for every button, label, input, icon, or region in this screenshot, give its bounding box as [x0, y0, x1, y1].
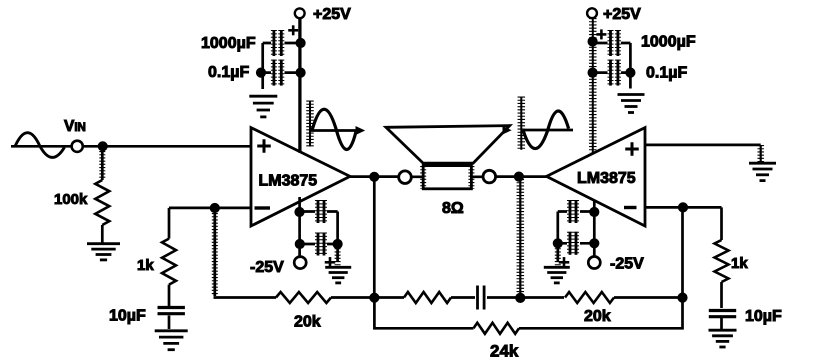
svg-text:-25V: -25V: [610, 256, 644, 273]
svg-text:+25V: +25V: [313, 6, 351, 23]
svg-text:VIN: VIN: [64, 118, 86, 135]
svg-text:0.1µF: 0.1µF: [208, 64, 249, 81]
svg-text:100k: 100k: [54, 191, 88, 208]
svg-text:20k: 20k: [294, 313, 321, 330]
svg-text:1k: 1k: [137, 257, 154, 274]
svg-text:1k: 1k: [731, 255, 748, 272]
svg-text:+25V: +25V: [603, 6, 641, 23]
svg-text:10µF: 10µF: [109, 308, 146, 325]
svg-text:8Ω: 8Ω: [442, 200, 464, 217]
svg-text:10µF: 10µF: [745, 308, 782, 325]
svg-text:-25V: -25V: [250, 259, 284, 276]
svg-text:20k: 20k: [584, 308, 611, 325]
svg-text:LM3875: LM3875: [577, 170, 636, 187]
svg-text:24k: 24k: [490, 342, 519, 361]
svg-text:0.1µF: 0.1µF: [646, 65, 687, 82]
svg-text:1000µF: 1000µF: [201, 35, 256, 52]
svg-text:LM3875: LM3875: [259, 173, 318, 190]
svg-text:1000µF: 1000µF: [641, 34, 696, 51]
